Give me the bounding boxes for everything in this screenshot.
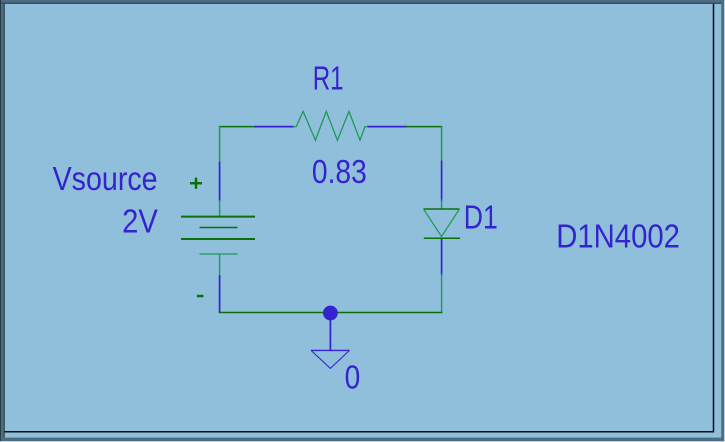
svg-text:0.83: 0.83 <box>312 153 367 190</box>
svg-text:2V: 2V <box>122 202 158 239</box>
svg-text:0: 0 <box>345 359 361 396</box>
svg-text:Vsource: Vsource <box>53 160 158 197</box>
svg-text:D1: D1 <box>464 198 498 235</box>
svg-text:D1N4002: D1N4002 <box>556 218 680 255</box>
svg-text:R1: R1 <box>313 60 344 97</box>
